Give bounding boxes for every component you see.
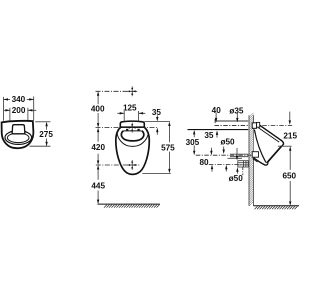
dimension 80 arrows [210, 148, 213, 172]
drain pipe body [228, 154, 249, 158]
urinal top-view outer bowl ellipse [5, 131, 32, 145]
svg-text:215: 215 [283, 132, 297, 141]
drain centreline (side) [196, 154, 254, 156]
wall section [249, 115, 253, 206]
dimension 445 arrows [97, 165, 99, 204]
label ø50 upper arrow [223, 147, 225, 151]
svg-text:650: 650 [282, 171, 296, 180]
vertical drain centreline [242, 167, 244, 175]
supply pipe centreline [215, 124, 249, 126]
supply reference line [215, 120, 248, 122]
dimension 400 line [97, 94, 99, 125]
drain centreline [96, 164, 141, 166]
svg-text:400: 400 [91, 105, 105, 114]
collar spud centre mark [127, 123, 137, 133]
urinal top-view cistern box [12, 125, 25, 134]
svg-text:ø50: ø50 [220, 137, 235, 146]
dimension 340 line [4, 96, 34, 120]
collar spud centreline [96, 127, 159, 129]
inner opening top edge [124, 130, 142, 132]
top reference centreline [96, 90, 137, 92]
urinal side profile outline [254, 125, 284, 166]
ground hatching under front view [104, 205, 160, 208]
svg-text:ø50: ø50 [229, 174, 244, 183]
lower drain centreline [209, 164, 244, 166]
urinal front egg outline [116, 127, 150, 174]
svg-text:ø35: ø35 [229, 106, 244, 115]
svg-text:575: 575 [161, 143, 175, 152]
svg-text:80: 80 [199, 158, 209, 167]
dimension 650 arrows [289, 146, 291, 206]
urinal side front rim outer [268, 144, 284, 162]
dimension 575 arrows [168, 122, 170, 174]
dimension 305 arrows [193, 132, 195, 152]
drain fitting box [238, 161, 248, 167]
dimension 275 arrows [45, 122, 47, 146]
dimension 35 (front) arrows [156, 115, 158, 134]
svg-text:340: 340 [12, 95, 26, 104]
svg-text:305: 305 [186, 138, 200, 147]
urinal top-view inner bowl ellipse [7, 133, 29, 143]
svg-text:420: 420 [91, 143, 105, 152]
dimension 125 lines [117, 111, 145, 121]
urinal top edge line (side) [188, 129, 249, 131]
inner opening bold outline [121, 131, 143, 141]
drain fitting arrow up from below [236, 170, 238, 174]
spreader bolt right [138, 129, 140, 131]
wall hatching [249, 113, 253, 206]
svg-text:200: 200 [12, 106, 26, 115]
dimension 340 arrows [4, 98, 34, 100]
dimension 215 lower reference line [278, 145, 292, 147]
urinal front collar [120, 121, 144, 128]
svg-text:125: 125 [123, 103, 137, 112]
dimension 575 lines [142, 124, 171, 173]
ground line under side view [254, 205, 300, 207]
urinal side bottom edge [254, 158, 266, 165]
urinal side trap lower detail [253, 159, 258, 162]
svg-text:275: 275 [39, 130, 53, 139]
urinal side bottom tip [266, 162, 268, 165]
drain centre mark [127, 160, 137, 170]
supply centreline through urinal to 215 dim [254, 124, 292, 126]
dimension 400 arrows [97, 91, 99, 127]
urinal top-view outer outline [2, 121, 34, 148]
drain fitting leader arrow down [236, 148, 238, 157]
ground line under front view [98, 203, 160, 205]
top reference centre mark [127, 86, 137, 96]
svg-text:35: 35 [204, 131, 214, 140]
urinal side top rim outer [260, 125, 281, 140]
collar top reference line [145, 121, 170, 123]
urinal side trap detail [252, 152, 258, 158]
dimension 200 line [4, 108, 36, 121]
dimension 200 arrows [5, 109, 32, 111]
svg-text:35: 35 [152, 108, 162, 117]
dimension 420 arrows [97, 128, 99, 165]
urinal side inlet connector [252, 123, 256, 129]
dimension 125 arrows [120, 112, 143, 114]
urinal side bowl back curve [254, 130, 266, 163]
supply pipe end tick [214, 119, 216, 123]
ground hatching under side view [255, 206, 298, 209]
dimension 650 lines [289, 150, 291, 201]
urinal side nose [281, 140, 284, 144]
urinal side inlet connector outer part [257, 122, 260, 127]
dimension 275 extension lines [30, 122, 51, 146]
dimension 35 (side) arrow [216, 134, 218, 137]
svg-text:40: 40 [212, 106, 222, 115]
urinal side front rim inner [266, 146, 281, 163]
dimension 40 arrow [215, 113, 217, 119]
drain lower leader arrow up [225, 168, 227, 172]
urinal side top rim inner [258, 128, 279, 142]
label ø35 arrow [236, 113, 238, 118]
svg-text:445: 445 [91, 182, 105, 191]
inner bowl rim arc [117, 133, 148, 146]
dimension 215 upper arrow [289, 112, 291, 121]
dimension 445 lines [97, 168, 99, 202]
spreader bolt left [126, 129, 128, 131]
dimension 420 lines [97, 130, 99, 163]
